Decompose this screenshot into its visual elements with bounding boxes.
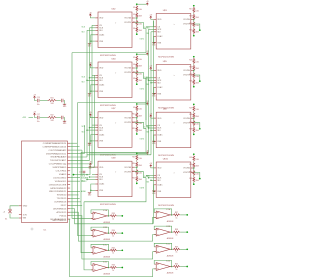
svg-text:R41: R41 — [50, 98, 53, 100]
+5V supply — [146, 53, 148, 56]
wire battery to U1 — [10, 206, 19, 209]
svg-text:C13: C13 — [92, 167, 95, 169]
op-amp IC1D — [91, 262, 110, 276]
svg-text:49k9: 49k9 — [139, 30, 142, 32]
resistor ladder U$4 — [133, 53, 142, 85]
wire — [70, 177, 80, 179]
svg-text:49k9: 49k9 — [196, 130, 199, 132]
ground — [88, 192, 91, 195]
svg-text:R6: R6 — [133, 64, 135, 66]
svg-text:+5V: +5V — [149, 113, 152, 115]
svg-text:49k9: 49k9 — [196, 68, 199, 70]
svg-text:49k9: 49k9 — [196, 83, 199, 85]
svg-text:R14: R14 — [132, 163, 135, 165]
resistor ladder U$10 — [189, 153, 199, 185]
wire — [63, 118, 66, 121]
wire — [70, 180, 80, 182]
svg-text:100k: 100k — [196, 76, 200, 78]
svg-text:49k9: 49k9 — [196, 32, 199, 34]
wire — [40, 100, 48, 102]
wire — [136, 125, 138, 128]
svg-text:100k: 100k — [196, 61, 200, 63]
svg-text:AD8608: AD8608 — [104, 238, 111, 241]
svg-text:ATCFWM/D16: ATCFWM/D16 — [53, 207, 67, 210]
battery X1 — [3, 209, 12, 220]
svg-text:+5V: +5V — [149, 15, 152, 17]
wire VOUTA U$4 — [135, 67, 137, 69]
svg-text:SCK: SCK — [147, 28, 150, 30]
wire — [136, 32, 138, 33]
wire output IC1A — [117, 215, 122, 217]
wire output IC1D — [117, 267, 122, 269]
svg-text:GND STEMCID: GND STEMCID — [52, 220, 67, 222]
svg-text:49k9: 49k9 — [139, 115, 142, 117]
wire VOUTB U$9 — [135, 172, 146, 178]
svg-text:+5V: +5V — [89, 162, 92, 164]
ground — [152, 41, 155, 44]
wire — [193, 161, 195, 162]
resistor R32 — [193, 177, 195, 183]
wire VOUTA U$2 — [135, 17, 137, 19]
svg-text:R40: R40 — [175, 264, 178, 266]
wire — [136, 161, 138, 162]
svg-text:49k9: 49k9 — [139, 16, 142, 18]
svg-text:SDI: SDI — [157, 130, 161, 132]
svg-text:100k: 100k — [139, 173, 143, 175]
wire — [193, 118, 195, 121]
svg-text:10u: 10u — [37, 104, 40, 106]
power filter row A — [33, 95, 67, 108]
svg-text:1k: 1k — [176, 235, 178, 237]
svg-text:+3: +3 — [3, 211, 5, 213]
wire — [193, 26, 195, 29]
svg-text:WTDI/D20: WTDI/D20 — [57, 195, 67, 197]
svg-text:IC1C: IC1C — [103, 244, 108, 246]
svg-text:VOUTA: VOUTA — [183, 69, 190, 72]
+5V supply — [146, 152, 148, 155]
resistor R31 — [193, 170, 195, 176]
svg-text:R4: R4 — [133, 28, 135, 30]
wire — [193, 64, 195, 65]
resistor R21 — [193, 58, 195, 64]
wire — [136, 25, 138, 28]
resistor ladder U$8 — [189, 104, 199, 136]
svg-text:R28: R28 — [189, 128, 192, 130]
resistor R34 — [110, 232, 118, 234]
wire output IC2A — [180, 214, 187, 216]
svg-text:VDD: VDD — [99, 167, 104, 169]
resistor R7 — [136, 70, 138, 76]
+5V supply — [150, 165, 152, 168]
resistor R10 — [136, 112, 138, 118]
svg-text:R37: R37 — [175, 212, 178, 214]
wire — [193, 71, 195, 74]
wire DAC out down U$9 — [84, 178, 146, 202]
svg-text:LDAC: LDAC — [99, 183, 105, 186]
svg-text:ATDO/D15: ATDO/D15 — [57, 211, 68, 214]
svg-text:100k: 100k — [196, 25, 200, 27]
svg-text:+5V: +5V — [89, 12, 92, 14]
svg-text:IC1D: IC1D — [103, 262, 108, 264]
svg-text:MCP4822-E/MS: MCP4822-E/MS — [158, 56, 174, 58]
svg-text:R2: R2 — [133, 14, 135, 16]
resistor R3 — [136, 20, 138, 26]
svg-text:LDAC: LDAC — [157, 134, 163, 137]
DAC IC U$10 MCP4822-E/MS — [153, 158, 193, 206]
svg-text:VDD: VDD — [99, 117, 104, 119]
wire feedback IC2B — [154, 226, 172, 232]
svg-text:COMPA/PWMA0/A21/D24: COMPA/PWMA0/A21/D24 — [43, 142, 67, 145]
svg-text:49k9: 49k9 — [139, 66, 142, 68]
resistor R18 — [193, 14, 195, 20]
svg-text:SDI: SDI — [99, 80, 103, 82]
svg-text:R9: R9 — [133, 107, 135, 109]
resistor R29 — [193, 155, 195, 161]
svg-text:49k9: 49k9 — [196, 116, 199, 118]
wire VOUTB U$7 — [135, 122, 146, 128]
svg-text:R12: R12 — [132, 128, 135, 130]
svg-text:TDO2/D19: TDO2/D19 — [57, 198, 67, 200]
resistor ladder U$5 — [189, 56, 199, 88]
resistor R26 — [193, 113, 195, 119]
svg-text:R8: R8 — [133, 78, 135, 80]
wire — [193, 133, 195, 134]
wire — [136, 111, 138, 112]
wire — [193, 34, 195, 35]
wire bus MCU to op-amps — [70, 21, 157, 277]
svg-text:C14: C14 — [79, 172, 82, 174]
svg-text:VDD: VDD — [157, 168, 162, 170]
svg-text:R29: R29 — [189, 157, 192, 159]
svg-text:3.3V: 3.3V — [23, 214, 28, 216]
svg-text:SDI: SDI — [99, 130, 103, 132]
wire — [193, 112, 195, 113]
svg-text:49k9: 49k9 — [139, 165, 142, 167]
wire — [70, 191, 80, 193]
svg-text:UCFWM/D18: UCFWM/D18 — [54, 202, 67, 204]
resistor R20 — [193, 28, 195, 34]
svg-text:R10: R10 — [132, 114, 135, 116]
capacitor C17 — [38, 116, 40, 120]
svg-text:F2/D14: F2/D14 — [60, 215, 67, 217]
svg-text:1k: 1k — [112, 270, 114, 272]
svg-text:VIN: VIN — [23, 218, 27, 220]
svg-text:49k9: 49k9 — [196, 17, 199, 19]
svg-text:VDD: VDD — [99, 18, 104, 20]
svg-text:GND: GND — [23, 206, 28, 208]
wire — [193, 85, 195, 86]
op-amp IC1A — [91, 209, 110, 224]
svg-text:COL/OF/D4: COL/OF/D4 — [56, 171, 67, 173]
svg-text:SDI: SDI — [157, 32, 161, 34]
svg-text:LDAC: LDAC — [99, 34, 105, 37]
+5V supply — [150, 115, 152, 118]
resistor R37 — [173, 214, 181, 216]
wire output IC1C — [117, 249, 122, 251]
resistor R12 — [136, 126, 138, 132]
resistor R27 — [193, 120, 195, 126]
svg-text:R27: R27 — [189, 122, 192, 124]
svg-text:1k: 1k — [112, 236, 114, 238]
svg-text:VOUTB: VOUTB — [124, 72, 131, 74]
ground — [152, 140, 155, 143]
wire VOUTA U$5 — [193, 70, 195, 72]
svg-text:100k: 100k — [139, 9, 143, 11]
svg-text:R36: R36 — [112, 265, 115, 267]
svg-text:R35: R35 — [112, 247, 115, 249]
svg-text:VOUTA: VOUTA — [124, 17, 131, 20]
svg-text:AD8608: AD8608 — [167, 254, 174, 257]
resistor ladder U$3 — [189, 5, 199, 37]
op-amp IC2D — [154, 261, 173, 275]
svg-text:R39: R39 — [175, 246, 178, 248]
resistor R30 — [193, 162, 195, 168]
svg-text:R1: R1 — [133, 7, 135, 9]
wire — [193, 125, 195, 128]
svg-text:R30: R30 — [189, 164, 192, 166]
svg-text:VJUNGO/D1: VJUNGO/D1 — [55, 181, 67, 183]
svg-text:R31: R31 — [189, 172, 192, 174]
svg-text:1k: 1k — [176, 217, 178, 219]
wire — [136, 11, 138, 12]
svg-text:COUT/PWMA1/A22: COUT/PWMA1/A22 — [49, 149, 68, 152]
+5V supply — [33, 113, 35, 116]
wire VOUTA U$9 — [135, 166, 137, 168]
DAC IC U$7 MCP4822-E/MS — [95, 108, 135, 156]
wire — [86, 174, 88, 176]
wire feedback IC1C — [91, 244, 109, 250]
resistor R39 — [173, 248, 181, 250]
svg-text:IC2C: IC2C — [166, 243, 171, 245]
resistor R35 — [110, 249, 118, 251]
svg-text:NSUB/PADA/A19: NSUB/PADA/A19 — [51, 156, 67, 159]
resistor R14 — [136, 162, 138, 168]
resistor R11 — [136, 120, 138, 126]
DAC IC U$8 MCP4822-E/MS — [153, 109, 193, 157]
svg-text:AD8608: AD8608 — [104, 273, 111, 276]
resistor ladder U$7 — [132, 103, 142, 135]
wire — [193, 20, 195, 23]
resistor R28 — [193, 127, 195, 133]
svg-text:100k: 100k — [139, 23, 143, 25]
wire VOUTA U$3 — [193, 19, 195, 21]
svg-text:VDD: VDD — [157, 70, 162, 72]
+5V supply — [150, 16, 152, 19]
wire VOUTA U$8 — [193, 117, 195, 119]
wire VOUTA U$10 — [193, 167, 195, 169]
svg-text:R16: R16 — [132, 177, 135, 179]
DAC IC U$4 MCP4822-E/MS — [95, 58, 135, 106]
svg-text:CATS/CFWM/D22: CATS/CFWM/D22 — [50, 187, 67, 190]
svg-text:LDAC: LDAC — [99, 84, 105, 87]
+5V supply — [146, 103, 148, 106]
svg-text:VDDANA: VDDANA — [81, 176, 89, 179]
wire feedback IC1D — [91, 262, 109, 268]
svg-text:+5V: +5V — [149, 163, 152, 165]
svg-text:R34: R34 — [112, 230, 115, 232]
wire feedback IC2D — [154, 261, 172, 267]
svg-text:VGA/D3: VGA/D3 — [59, 173, 67, 176]
svg-text:VDD: VDD — [99, 68, 104, 70]
svg-text:OUT8: OUT8 — [140, 188, 145, 190]
resistor R5 — [136, 55, 138, 61]
svg-text:COMPB/PWMB0/D12/D13: COMPB/PWMB0/D12/D13 — [43, 146, 68, 148]
svg-text:49k9: 49k9 — [196, 180, 199, 182]
op-amp IC2B — [154, 226, 173, 240]
resistor ladder U$2 — [133, 3, 142, 35]
wire — [136, 75, 138, 78]
ground — [63, 120, 66, 123]
ground — [152, 92, 155, 95]
svg-text:100k: 100k — [196, 109, 200, 111]
wire — [137, 53, 148, 55]
wire DAC out down U$4 — [78, 79, 147, 103]
svg-text:R32: R32 — [189, 178, 192, 180]
svg-text:VOUTA: VOUTA — [183, 18, 190, 21]
wire — [137, 152, 148, 154]
+5V supply — [150, 67, 152, 70]
svg-text:1k: 1k — [176, 252, 178, 254]
svg-text:100k: 100k — [139, 109, 143, 111]
wire feedback IC1B — [91, 227, 109, 233]
svg-text:AD8608: AD8608 — [104, 221, 111, 224]
wire bus MCU to DACs — [70, 12, 156, 196]
DAC IC U$3 MCP4822-E/MS — [153, 10, 193, 58]
svg-text:R23: R23 — [189, 74, 192, 76]
wire output IC2C — [180, 248, 187, 250]
capacitor C14 — [83, 171, 86, 172]
wire — [193, 175, 195, 178]
ground — [152, 190, 155, 193]
resistor R25 — [193, 106, 195, 112]
svg-text:R13: R13 — [132, 156, 135, 158]
svg-text:+5V: +5V — [33, 112, 36, 114]
wire — [89, 165, 91, 167]
wire — [193, 77, 195, 80]
svg-text:+5V: +5V — [149, 66, 152, 68]
resistor ladder U$9 — [132, 153, 142, 185]
DAC IC U$2 MCP4822-E/MS — [95, 8, 135, 56]
wire — [136, 167, 138, 170]
svg-text:R19: R19 — [189, 23, 192, 25]
svg-text:VDDIO: VDDIO — [81, 181, 87, 183]
ground — [88, 42, 91, 45]
resistor R40 — [173, 265, 181, 267]
wire feedback IC2A — [154, 209, 172, 215]
resistor R9 — [136, 105, 138, 111]
capacitor C18 — [62, 116, 64, 120]
wire — [136, 18, 138, 21]
svg-text:SUSP/PWB/D5: SUSP/PWB/D5 — [53, 167, 68, 169]
wire — [136, 132, 138, 133]
resistor R23 — [193, 73, 195, 79]
wire VOUTB U$4 — [135, 73, 146, 79]
wire — [136, 82, 138, 83]
svg-text:LDAC: LDAC — [157, 35, 163, 38]
svg-text:SDI: SDI — [157, 180, 161, 182]
svg-text:IC2D: IC2D — [166, 261, 171, 263]
svg-text:C17: C17 — [37, 114, 40, 116]
svg-text:MCP4822-E/MS: MCP4822-E/MS — [158, 205, 174, 207]
wire DAC out down U$2 — [72, 29, 146, 53]
resistor R2 — [136, 12, 138, 18]
svg-text:LDAC: LDAC — [157, 86, 163, 89]
svg-text:WBOOT/FWM/D21: WBOOT/FWM/D21 — [49, 191, 67, 193]
resistor R24 — [193, 79, 195, 85]
svg-text:1k: 1k — [176, 269, 178, 271]
svg-text:+3V3: +3V3 — [22, 117, 26, 119]
wire feedback IC2C — [154, 243, 172, 249]
svg-text:MCP4822-E/MS: MCP4822-E/MS — [100, 105, 116, 107]
wire output IC2B — [180, 231, 187, 233]
wire VOUTB U$5 — [194, 75, 200, 81]
DAC IC U$5 MCP4822-E/MS — [153, 61, 193, 109]
svg-text:R17: R17 — [189, 9, 192, 11]
+5V supply — [89, 163, 91, 166]
wire DAC out down U$7 — [81, 128, 146, 152]
svg-text:R33: R33 — [112, 213, 115, 215]
wire — [136, 68, 138, 71]
resistor R41 — [48, 99, 57, 101]
microcontroller U1 — [19, 141, 70, 232]
svg-text:OUT6: OUT6 — [140, 138, 145, 140]
resistor R22 — [193, 65, 195, 71]
svg-text:LDAC: LDAC — [157, 184, 163, 187]
DAC IC U$9 MCP4822-E/MS — [95, 158, 135, 206]
svg-text:100k: 100k — [196, 159, 200, 161]
svg-text:AD8608: AD8608 — [167, 272, 174, 275]
resistor R13 — [136, 155, 138, 161]
svg-text:100k: 100k — [139, 73, 143, 75]
wire — [193, 13, 195, 14]
wire — [193, 168, 195, 171]
ground — [88, 92, 91, 95]
wire — [63, 101, 66, 104]
svg-text:MCP4822-E/MS: MCP4822-E/MS — [100, 204, 116, 206]
+5V supply — [89, 14, 91, 17]
svg-text:R26: R26 — [189, 114, 192, 116]
ground — [63, 103, 66, 106]
svg-text:100k: 100k — [196, 124, 200, 126]
wire — [89, 168, 91, 170]
svg-text:1k: 1k — [112, 218, 114, 220]
svg-text:SDI: SDI — [99, 179, 103, 181]
resistor R1 — [136, 5, 138, 11]
svg-text:R18: R18 — [189, 15, 192, 17]
power filter row B — [22, 112, 67, 125]
wire VOUTB U$10 — [194, 173, 200, 179]
svg-text:VOUTB: VOUTB — [124, 122, 131, 124]
svg-text:LCD/GLUE/D2: LCD/GLUE/D2 — [53, 177, 67, 179]
wire feedback IC1A — [91, 210, 109, 216]
svg-text:AD8608: AD8608 — [167, 237, 174, 240]
wire — [35, 116, 37, 118]
wire — [40, 117, 48, 119]
wire VOUTB U$8 — [194, 123, 200, 129]
wire VOUTA U$7 — [135, 117, 137, 119]
svg-text:R38: R38 — [175, 229, 178, 231]
wire — [136, 182, 138, 183]
svg-text:1k: 1k — [112, 253, 114, 255]
svg-text:AD8608: AD8608 — [104, 255, 111, 258]
resistor R33 — [110, 215, 118, 217]
svg-text:VDD: VDD — [157, 19, 162, 21]
svg-text:R42: R42 — [50, 115, 53, 117]
svg-text:100k: 100k — [196, 173, 200, 175]
wire — [136, 118, 138, 121]
resistor R16 — [136, 176, 138, 182]
resistor R38 — [173, 231, 181, 233]
